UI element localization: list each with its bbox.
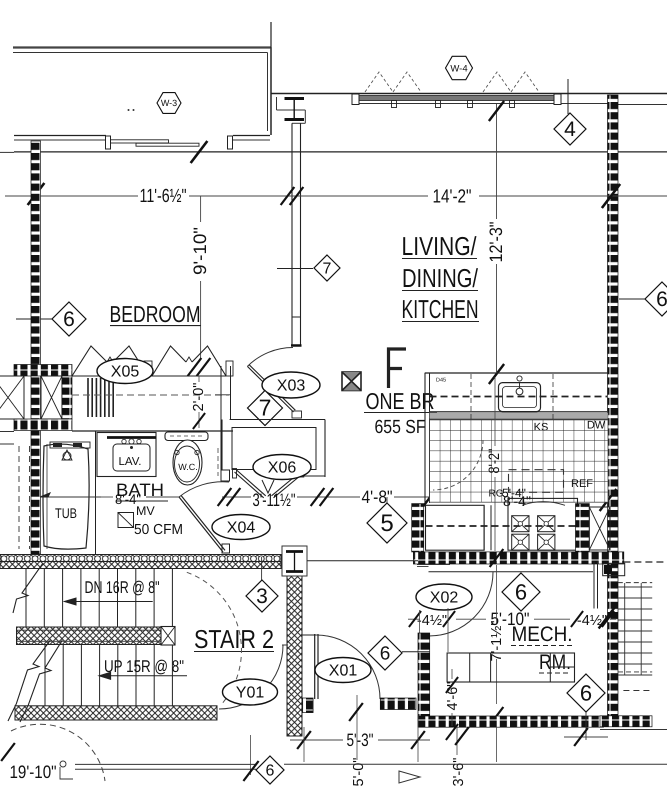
svg-text:14'-2": 14'-2" (433, 187, 472, 208)
bedroom sliding glass door panels (106, 136, 233, 149)
svg-text:6: 6 (266, 762, 275, 779)
stair north wall hatched (0, 555, 281, 569)
label bubble X06 (253, 455, 311, 480)
svg-text:5: 5 (380, 510, 393, 537)
steel column box stair corner (282, 546, 307, 576)
svg-text:BEDROOM: BEDROOM (110, 301, 201, 327)
wall junction box kitchen southeast (603, 562, 667, 576)
room label BATH (116, 480, 168, 501)
hall closet bifold X06 (233, 468, 305, 498)
wall stub east of X01 (380, 698, 416, 710)
column xbox kitchen east (589, 507, 610, 550)
closet bifold doors (72, 346, 226, 376)
svg-text:MECH.: MECH. (512, 623, 573, 646)
svg-text:7: 7 (259, 395, 272, 421)
vertical dim 9'-10 bedroom (188, 196, 211, 376)
wall right of range (576, 504, 590, 552)
svg-text:ONE BR: ONE BR (366, 388, 435, 414)
svg-text:6: 6 (656, 288, 667, 311)
stair door dashed swing (187, 572, 242, 703)
svg-text:REF: REF (571, 478, 593, 490)
bedroom east partition wall (291, 123, 302, 346)
diamond tag 3 with leader (246, 557, 278, 612)
svg-text:12'-3": 12'-3" (486, 222, 506, 263)
svg-text:DW: DW (587, 420, 606, 432)
tub leader line with arrow (40, 493, 101, 497)
svg-text:7: 7 (323, 260, 332, 277)
hexagon tag W-3 (128, 93, 182, 114)
svg-text:RM.: RM. (539, 651, 571, 674)
kitchen counter top edge (425, 372, 608, 374)
tub wall divider (95, 431, 97, 554)
lavatory vanity (97, 433, 156, 477)
floor line left stub (0, 151, 14, 153)
extension verticals bottom (250, 695, 496, 775)
tick bottom left edge (1, 743, 15, 761)
diamond tag 6 right edge with leader (619, 282, 667, 316)
mech room west wall (418, 633, 430, 721)
svg-text:X04: X04 (227, 520, 256, 537)
svg-text:LAV.: LAV. (118, 456, 141, 468)
closet jamb middle (144, 361, 152, 376)
stair DN text and arrow (64, 578, 159, 605)
east wall lower band (600, 716, 652, 727)
hexagon tag W-4 (446, 56, 473, 79)
stair cut line lower (8, 640, 62, 722)
svg-text:8'-4": 8'-4" (503, 493, 531, 509)
diamond tag 6 bottom (243, 756, 284, 784)
stair lower flight treads (45, 645, 172, 706)
svg-text:6: 6 (515, 579, 527, 604)
kitchen floor tile grid (430, 420, 609, 503)
svg-text:3'-6": 3'-6" (451, 758, 467, 787)
unit type symbol box (342, 372, 361, 391)
door X02 swing arc (429, 572, 493, 636)
closet hanging rods (88, 378, 113, 417)
svg-text:3: 3 (256, 585, 268, 608)
line from column to kitchen wall (307, 560, 418, 562)
svg-text:KS: KS (534, 422, 549, 434)
kitchen west wall lower black (412, 504, 424, 552)
label bubble X04 (212, 515, 270, 540)
svg-text:3'-11½": 3'-11½" (253, 490, 296, 510)
stair south wall hatched (15, 706, 217, 720)
entry door X01 leaf and swing (302, 634, 380, 699)
room label MECH RM (511, 623, 573, 674)
extension lines passage (420, 608, 449, 652)
closet front track line (72, 375, 226, 377)
svg-text:X01: X01 (329, 663, 358, 680)
kitchen counter front band (430, 412, 609, 420)
diamond tag 7 upper with leader (277, 255, 340, 281)
range stove with burners (508, 498, 578, 550)
refrigerator dashed box (509, 470, 564, 493)
diamond tag 6 passage (502, 573, 540, 611)
kitchen west wall upper (425, 373, 430, 503)
diamond tag 7 lower (248, 391, 283, 426)
toilet W.C (165, 432, 208, 485)
passage dim row -4 1/2 5'-10 -4 1/2 (408, 609, 616, 629)
svg-text:W-4: W-4 (450, 63, 467, 74)
adjacent stair grid east (618, 583, 652, 691)
column xbox (41, 376, 62, 419)
svg-text:UP 15R @ 8": UP 15R @ 8" (104, 657, 184, 676)
balcony outline W-3 area (13, 48, 271, 136)
svg-text:7'-1½": 7'-1½" (489, 621, 505, 662)
stair door Y01 swing (219, 645, 288, 709)
svg-text:TUB: TUB (55, 505, 77, 521)
bedroom exterior wall top face (14, 136, 270, 141)
dimension line 11'-6 1/2 and 14'-2 (5, 195, 667, 197)
svg-text:8'-2": 8'-2" (486, 449, 503, 474)
living room north wall lines (271, 94, 667, 105)
diamond tag 5 (367, 497, 407, 543)
svg-text:11'-6½": 11'-6½" (140, 186, 187, 207)
tick mech south (455, 727, 469, 745)
tick on east wall (599, 607, 616, 629)
svg-text:50 CFM: 50 CFM (134, 522, 183, 538)
dim ticks (28, 183, 620, 208)
steel column I-beam at corner (285, 99, 305, 120)
label bubble X05 (97, 359, 153, 384)
casement swing dashed triangles (365, 72, 539, 92)
svg-text:LIVING/: LIVING/ (402, 231, 478, 261)
kitchen dashed door swing (433, 440, 483, 490)
base cabinet (426, 505, 583, 550)
svg-text:6: 6 (380, 643, 391, 664)
arc door bottom left dashed (11, 724, 105, 781)
wall stub at X01 hinge (303, 698, 314, 713)
hall closet shelf dashes (217, 448, 219, 476)
line x=457 bottom (456, 727, 458, 755)
mech room south wall (418, 716, 604, 727)
label bubble X02 (416, 584, 472, 610)
bottom dimension line (284, 763, 667, 765)
kitchen dim 5'-4 and 8'-4 (502, 486, 531, 509)
bath north wall (72, 430, 233, 432)
stair cut line upper (13, 564, 43, 613)
svg-text:4: 4 (564, 118, 576, 141)
vertical dim 12'-3 living (486, 101, 506, 384)
wall step outline at living/bedroom corner (277, 97, 306, 123)
label bubble X01 (315, 658, 371, 683)
bathtub (43, 442, 90, 549)
svg-text:9'-10": 9'-10" (190, 227, 210, 275)
kitchen dim 8'-2 vertical (486, 377, 503, 551)
column xbox left partial (0, 376, 24, 419)
vertical dim 2'-0 closet (191, 376, 207, 429)
west wall black masonry (31, 141, 41, 554)
diamond tag 6 left with leader (16, 302, 86, 336)
svg-text:X02: X02 (430, 590, 459, 607)
dim 19'-10 with wall lines (10, 761, 257, 782)
svg-text:6: 6 (580, 680, 592, 705)
stair east wall hatched (287, 576, 302, 736)
diamond tag 6 mech with leader (567, 674, 605, 740)
stair upper flight treads (26, 569, 172, 628)
svg-text:5'-0": 5'-0" (351, 758, 367, 787)
east exterior wall (608, 95, 619, 716)
exhaust fan MV 50 CFM (118, 504, 183, 538)
svg-text:W.C.: W.C. (178, 462, 198, 472)
room label BEDROOM (110, 301, 202, 327)
water heater equipment (447, 653, 574, 682)
svg-text:STAIR 2: STAIR 2 (194, 624, 274, 654)
mirrored tub adjacent unit dashed (0, 432, 30, 550)
closet shelf dashed (72, 394, 229, 396)
label bubble Y01 (223, 679, 278, 705)
dim 7'-1 1/2 vertical (489, 549, 505, 725)
window W-4 mullions (392, 101, 515, 108)
svg-text:X06: X06 (268, 460, 297, 477)
stair middle rail hatched (17, 627, 176, 646)
bedroom wall inner face line full width (14, 151, 667, 153)
label bubble X03 (262, 372, 320, 398)
room label LIVING/DINING/KITCHEN (402, 231, 480, 324)
diamond tag 4 with leader (554, 79, 586, 145)
hall closet outline (230, 420, 325, 478)
dim 5'-3 row (290, 730, 430, 750)
kitchen south wall (413, 552, 623, 564)
bedroom door X03 leaf and swing (247, 348, 301, 419)
svg-text:6: 6 (63, 308, 75, 331)
diamond tag 6 corridor with leader (368, 636, 430, 670)
dim 4'-6 vertical (445, 669, 461, 740)
svg-text:655 SF: 655 SF (375, 417, 426, 438)
cabinet divider dashes (471, 374, 553, 419)
open triangle marker (399, 771, 420, 783)
tick right bottom (564, 728, 608, 746)
kitchen sink KS (499, 376, 541, 412)
room label STAIR 2 (194, 624, 274, 654)
svg-text:DINING/: DINING/ (402, 263, 479, 293)
svg-text:-4½": -4½" (577, 613, 607, 629)
svg-text:MV: MV (136, 504, 155, 518)
unit label F ONE BR 655 SF (364, 349, 437, 438)
kitchen appliance labels (489, 420, 606, 500)
svg-text:DN 16R @ 8": DN 16R @ 8" (85, 578, 160, 597)
bath east wall (221, 420, 230, 554)
plumbing wall band upper (14, 365, 72, 377)
window W-4 band (352, 94, 561, 105)
plumbing wall dash right (62, 376, 72, 419)
svg-text:KITCHEN: KITCHEN (402, 294, 479, 324)
svg-text:X05: X05 (111, 364, 140, 381)
window break tick (191, 141, 208, 163)
svg-text:D45: D45 (436, 378, 446, 384)
svg-text:19'-10": 19'-10" (10, 762, 57, 782)
hall dimension line 3'-11 1/2 and 4'-8 (101, 487, 616, 511)
upper cabinets dashed line (430, 396, 608, 398)
svg-text:W-3: W-3 (161, 98, 177, 108)
svg-text:Y01: Y01 (236, 685, 265, 702)
svg-text:4'-6": 4'-6" (445, 682, 461, 711)
svg-text:5'-3": 5'-3" (347, 730, 374, 750)
lines below kitchen wall (417, 561, 598, 608)
svg-text:X03: X03 (277, 378, 306, 395)
line above balcony corner (270, 22, 272, 48)
svg-text:2'-0": 2'-0" (191, 383, 207, 412)
svg-text:-4½": -4½" (417, 613, 447, 629)
closet end jamb (226, 361, 233, 376)
line below east band (600, 729, 667, 731)
bath door X04 leaf and swing (179, 482, 229, 552)
stair UP text and arrow (99, 657, 187, 679)
hall wall west of closet (215, 366, 231, 470)
plumbing wall band lower (14, 419, 72, 431)
